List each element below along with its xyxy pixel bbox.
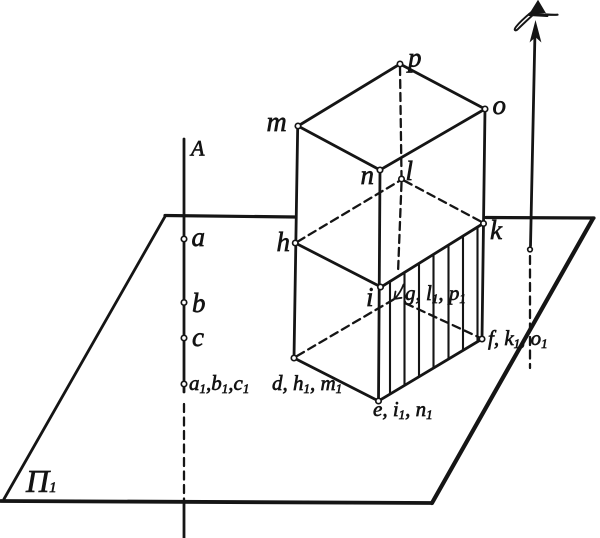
edge g-f (hidden bottom edge, dashed)	[406, 303, 480, 337]
edge l-g (hidden back vertical edge, dashed)	[398, 183, 402, 273]
node l	[399, 176, 404, 181]
plane Π₁ right edge	[432, 219, 593, 504]
node i	[378, 284, 383, 289]
svg-text:l: l	[406, 156, 414, 186]
edge d-g (hidden bottom edge, dashed)	[297, 300, 394, 357]
flourish glyph at arrow top	[515, 2, 558, 31]
svg-text:c: c	[192, 322, 204, 352]
node e (e,i1,n1)	[376, 398, 381, 403]
node o	[482, 106, 487, 111]
node a1b1c1	[181, 381, 186, 386]
section edge h-l (hidden, dashed)	[298, 182, 399, 242]
plane Π₁ left edge	[4, 217, 165, 500]
edge p-l (hidden back vertical edge, dashed)	[400, 67, 402, 176]
leader arrow to hidden vertex g	[394, 285, 403, 299]
plane Π₁ top edge (left segment)	[165, 216, 295, 218]
node d (d,h1,m1)	[291, 355, 296, 360]
edge o-f (right vertical edge through k)	[482, 109, 485, 339]
svg-text:b: b	[192, 288, 206, 318]
edge n-m (top face)	[298, 126, 380, 170]
svg-text:h: h	[277, 227, 291, 257]
edge m-p (top face)	[298, 64, 400, 126]
svg-text:A: A	[189, 136, 205, 161]
plane Π₁ top edge (right segment)	[486, 216, 594, 220]
line A (dashed hidden part under plane)	[183, 404, 185, 500]
node b	[181, 300, 186, 305]
node on axis	[528, 247, 533, 252]
node f (f,k1,o1)	[479, 336, 484, 341]
line A (solid part below plane)	[183, 502, 186, 538]
svg-text:g, l1, p1: g, l1, p1	[405, 281, 466, 306]
edge d-e (bottom face)	[294, 358, 379, 401]
svg-text:a: a	[192, 222, 206, 252]
svg-text:n: n	[361, 160, 375, 190]
section edge h-i (solid)	[295, 243, 381, 287]
node p	[397, 61, 402, 66]
svg-text:m: m	[267, 107, 287, 138]
edge p-o (top face)	[400, 64, 485, 109]
node a	[181, 236, 186, 241]
svg-text:d, h1, m1: d, h1, m1	[272, 371, 342, 396]
vertex circles	[181, 61, 532, 403]
svg-text:Π1: Π1	[25, 463, 57, 499]
projecting axis (dashed hidden part)	[529, 256, 531, 368]
svg-text:i: i	[366, 282, 374, 312]
hatching on face i-k-f-e	[390, 227, 478, 394]
plane Π₁ bottom edge	[1, 501, 432, 503]
edge n-e (front vertical edge through i)	[379, 170, 381, 401]
edge o-n (top face)	[380, 109, 485, 170]
svg-text:p: p	[406, 43, 422, 73]
section edge l-k (hidden, dashed)	[405, 181, 484, 223]
svg-text:f, k1, o1: f, k1, o1	[488, 326, 548, 351]
edge e-f (bottom face)	[379, 339, 483, 401]
node h	[293, 240, 298, 245]
projecting axis arrow (solid shaft)	[531, 31, 536, 246]
edge m-d (left vertical edge through h)	[294, 126, 298, 358]
axis arrowhead	[531, 22, 541, 41]
node m	[295, 123, 300, 128]
svg-text:o: o	[493, 90, 507, 120]
svg-text:e, i1, n1: e, i1, n1	[373, 397, 433, 422]
node c	[181, 335, 186, 340]
svg-text:a1,b1,c1: a1,b1,c1	[189, 371, 249, 396]
node k	[481, 221, 486, 226]
line A (solid part)	[183, 139, 186, 392]
node n	[377, 167, 382, 172]
section edge i-k (solid)	[381, 223, 484, 287]
svg-text:k: k	[490, 215, 503, 245]
